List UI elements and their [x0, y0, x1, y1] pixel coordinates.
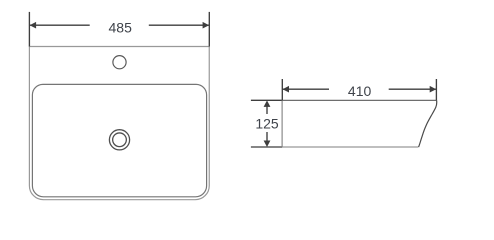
svg-text:410: 410	[348, 83, 372, 99]
extension line left (410)	[281, 79, 283, 100]
svg-text:485: 485	[109, 19, 133, 35]
arrow down (125)	[264, 141, 271, 148]
dimension line 125 bottom segment	[266, 132, 268, 144]
side profile left edge	[281, 100, 283, 147]
extension line right (485)	[208, 12, 210, 47]
side profile top edge	[282, 99, 436, 101]
extension line top (125)	[251, 99, 282, 101]
arrow right (485)	[203, 22, 210, 29]
dimension line 410 right segment	[389, 88, 437, 90]
side profile bottom edge	[282, 146, 418, 148]
arrow left (410)	[283, 86, 290, 93]
extension line bottom (125)	[251, 146, 282, 148]
dimension line 125 top segment	[266, 103, 268, 114]
dimension line 485 left segment	[29, 24, 89, 26]
dimension line 485 right segment	[149, 24, 210, 26]
basin outer rim (top view)	[29, 47, 209, 200]
faucet hole	[113, 56, 126, 69]
svg-text:125: 125	[255, 116, 279, 132]
extension line right (410)	[435, 79, 437, 100]
drain outer circle	[109, 130, 129, 150]
extension line left (485)	[28, 12, 30, 47]
basin inner bowl (top view)	[32, 84, 206, 196]
arrow up (125)	[264, 100, 271, 107]
dimension line 410 left segment	[282, 88, 329, 90]
arrow left (485)	[30, 22, 36, 29]
arrow right (410)	[430, 86, 437, 93]
side profile right curved edge	[419, 100, 437, 147]
drain inner circle	[113, 133, 127, 147]
